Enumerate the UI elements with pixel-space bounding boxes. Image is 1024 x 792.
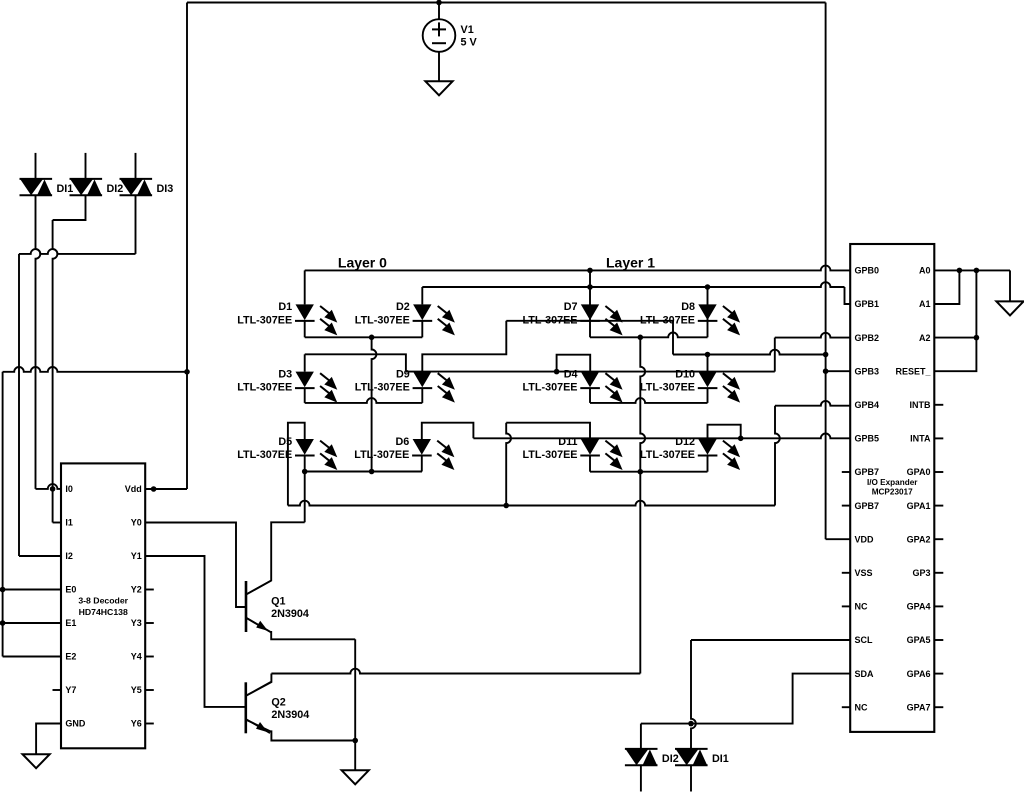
wire D12 anode bridge	[708, 425, 741, 439]
wire D3 anode stem	[304, 354, 306, 371]
wire emitters to ground	[354, 741, 356, 771]
wire D3 cathode stem	[304, 388, 306, 403]
wire Y0 to Q1 base	[145, 523, 245, 608]
wire Y1 to Q2 base	[145, 556, 245, 707]
svg-text:LTL-307EE: LTL-307EE	[355, 382, 410, 394]
junction dot +5V rail at GPB3	[823, 368, 829, 374]
svg-text:SCL: SCL	[855, 635, 874, 645]
pin stub GPA1	[934, 505, 943, 507]
wire D9 cathode stem	[421, 388, 423, 403]
svg-text:GPB4: GPB4	[855, 400, 880, 410]
wire D10 cathode stem	[707, 388, 709, 403]
svg-text:GPB5: GPB5	[855, 434, 880, 444]
LED D5 LTL-307EE	[295, 439, 337, 470]
wire row2 cathode rail L0	[305, 398, 423, 403]
svg-text:GP3: GP3	[912, 568, 930, 578]
junction dot GPB4/D11	[503, 503, 509, 509]
junction dot emitters	[352, 738, 358, 744]
svg-text:GPA0: GPA0	[907, 467, 931, 477]
svg-text:D1: D1	[278, 301, 292, 313]
svg-text:LTL-307EE: LTL-307EE	[640, 382, 695, 394]
svg-text:E1: E1	[65, 618, 76, 628]
wire +5V top rail	[187, 2, 826, 4]
svg-text:D10: D10	[675, 368, 695, 380]
svg-text:A1: A1	[919, 299, 931, 309]
LED D1 LTL-307EE	[295, 304, 337, 335]
wire I0 link	[36, 484, 62, 489]
pin stub Y3	[145, 622, 154, 624]
svg-text:D9: D9	[396, 368, 410, 380]
wire right +5V drop to MCP VDD	[825, 3, 827, 540]
wire D11 anode bridge	[506, 423, 590, 439]
wire V1 to ground	[438, 52, 440, 82]
svg-text:SDA: SDA	[855, 669, 875, 679]
wire DI3 horizontal	[19, 249, 136, 254]
svg-text:E0: E0	[65, 585, 76, 595]
wire row1 cathode rail L0	[305, 336, 423, 338]
svg-text:Y7: Y7	[65, 685, 76, 695]
pin stub GPA2	[934, 538, 943, 540]
LED D4 LTL-307EE	[580, 372, 622, 403]
wire Q2 collector	[246, 674, 271, 696]
wire D2 anode stem	[421, 287, 423, 304]
junction dot +5V rail at y354	[823, 352, 829, 358]
svg-text:MCP23017: MCP23017	[872, 488, 913, 497]
ground at A0	[996, 301, 1023, 315]
svg-text:Y4: Y4	[131, 652, 142, 662]
pin stub NC	[842, 605, 850, 607]
svg-text:I1: I1	[65, 518, 73, 528]
svg-text:A0: A0	[919, 266, 931, 276]
LED D9 LTL-307EE	[413, 372, 455, 403]
svg-text:2N3904: 2N3904	[271, 709, 309, 721]
pin stub GP3	[934, 572, 943, 574]
svg-text:GPA4: GPA4	[907, 602, 931, 612]
svg-text:E2: E2	[65, 652, 76, 662]
wire GPB2 link	[775, 333, 850, 338]
wire D1 cathode stem	[304, 321, 306, 337]
LED D10 LTL-307EE	[698, 372, 740, 403]
pin stub Y2	[145, 589, 154, 591]
svg-text:DI2: DI2	[107, 183, 124, 195]
wire antenna stub above DI1	[35, 153, 37, 179]
wire GND link	[36, 724, 61, 755]
wire GPB5 line	[473, 433, 850, 438]
svg-text:GPB1: GPB1	[855, 299, 880, 309]
I/O expander MCP23017 body	[850, 244, 934, 732]
voltage source V1 stem	[438, 3, 440, 20]
wire E0 link	[3, 589, 61, 591]
wire D5 anode bridge	[288, 423, 305, 506]
wire GPB1 jog	[845, 287, 851, 304]
svg-text:NC: NC	[855, 602, 868, 612]
junction dot D12 anode	[738, 436, 744, 442]
junction dot D8 anode	[705, 284, 711, 290]
svg-text:LTL-307EE: LTL-307EE	[237, 449, 292, 461]
pin stub INTB	[934, 404, 943, 406]
wire row3 cathode rail L1	[590, 471, 708, 473]
svg-text:INTA: INTA	[910, 434, 931, 444]
wire D10 stem	[707, 355, 709, 372]
junction dot D7 anode	[587, 268, 593, 274]
diac DI1 bottom	[675, 749, 708, 765]
svg-text:LTL-307EE: LTL-307EE	[354, 449, 409, 461]
svg-text:Y3: Y3	[131, 618, 142, 628]
3-8 decoder HD74HC138 body	[61, 463, 145, 748]
svg-text:2N3904: 2N3904	[271, 608, 309, 620]
svg-text:GPB0: GPB0	[855, 266, 880, 276]
junction dot row1 L1	[638, 335, 644, 341]
wire row3 cathode rail L0	[305, 471, 422, 473]
svg-text:LTL-307EE: LTL-307EE	[640, 449, 695, 461]
pin stub GPB7	[842, 505, 850, 507]
wire A1 link	[934, 270, 959, 304]
LED D11 LTL-307EE	[580, 439, 622, 470]
wire D1 anode stem	[304, 270, 306, 304]
svg-text:LTL-307EE: LTL-307EE	[523, 449, 578, 461]
wire SCL link	[691, 639, 850, 641]
wire D9 anode link	[422, 321, 506, 372]
svg-text:Vdd: Vdd	[125, 484, 142, 494]
junction dot row3 L1	[638, 469, 644, 475]
LED D3 LTL-307EE	[295, 372, 337, 403]
wire RESET_ link	[934, 270, 976, 371]
svg-text:LTL-307EE: LTL-307EE	[237, 314, 292, 326]
wire DI1 bottom stub	[690, 765, 692, 791]
wire Q2 emitter	[246, 720, 355, 741]
junction dot A0/A1	[957, 268, 963, 274]
wire antenna stub above DI3	[135, 153, 137, 179]
wire enable vertical	[2, 372, 4, 657]
svg-text:VDD: VDD	[855, 534, 875, 544]
wire Vdd link to rail	[673, 350, 826, 355]
junction dot D10 anode branch	[705, 352, 711, 358]
junction dot V1 at top rail	[436, 0, 442, 5]
pin stub GPA5	[934, 639, 943, 641]
svg-text:I2: I2	[65, 551, 73, 561]
svg-text:NC: NC	[855, 702, 868, 712]
wire GPB4 low line	[288, 501, 775, 506]
wire D6 anode bridge	[422, 423, 474, 439]
bridge over D4 label	[557, 355, 591, 372]
wire layer0 row2 anode rail	[305, 354, 406, 371]
wire antenna stub above DI2	[85, 153, 87, 179]
LED D6 LTL-307EE	[412, 439, 454, 470]
svg-text:DI1: DI1	[712, 753, 729, 765]
svg-text:RESET_: RESET_	[895, 366, 931, 376]
ground below Q2	[342, 770, 369, 784]
pin stub Y5	[145, 689, 154, 691]
pin stub NC	[842, 706, 850, 708]
svg-text:V1: V1	[461, 24, 474, 36]
svg-text:LTL-307EE: LTL-307EE	[237, 382, 292, 394]
wire Q1 emitter	[247, 618, 356, 639]
wire I1 link	[53, 522, 61, 524]
junction dot I0/DI2 crossing	[50, 486, 56, 492]
wire Vdd link	[145, 488, 187, 490]
wire A2 link	[934, 337, 976, 339]
wire DI1 cathode down to I0	[36, 195, 41, 489]
junction dot Vdd	[151, 486, 157, 492]
svg-text:VSS: VSS	[855, 568, 873, 578]
svg-text:3-8 Decoder: 3-8 Decoder	[78, 596, 128, 606]
wire row1 cathode rail L1	[590, 333, 708, 338]
diac DI2	[70, 179, 103, 195]
wire GPB4 riser	[775, 406, 780, 506]
svg-text:I0: I0	[65, 484, 73, 494]
svg-text:D4: D4	[564, 368, 578, 380]
wire E1 link	[3, 622, 61, 624]
wire I2 link	[19, 555, 61, 557]
svg-text:D3: D3	[278, 368, 292, 380]
svg-text:DI1: DI1	[57, 183, 74, 195]
wire D11 cathode stem	[589, 456, 591, 472]
pin stub GPB7	[842, 471, 850, 473]
diac DI3	[120, 179, 153, 195]
wire D5 cathode stem	[304, 456, 306, 472]
junction dot D4 branch	[554, 369, 560, 375]
svg-text:Y5: Y5	[131, 685, 142, 695]
wire enable branch from +5V	[3, 367, 187, 372]
pin stub Y7	[53, 689, 62, 691]
wire D6 cathode stem	[421, 456, 423, 472]
wire Q2 collector to layer1 cathodes	[271, 669, 640, 674]
ground below V1	[425, 81, 452, 95]
pin stub Y4	[145, 656, 154, 658]
wire D5 column down	[304, 472, 306, 523]
wire Q1 emitter drop	[354, 639, 356, 740]
svg-text:D5: D5	[278, 436, 292, 448]
wire Q1 collector	[247, 522, 305, 594]
wire row1b rail GPB1	[422, 282, 844, 287]
svg-text:Q2: Q2	[271, 697, 285, 709]
pin stub Y6	[145, 723, 154, 725]
wire left +5V drop to decoder Vdd	[186, 3, 188, 490]
junction dot SCL/SDA crossing	[688, 721, 694, 727]
wire cathode chain L0	[372, 337, 377, 471]
pin stub GPA6	[934, 673, 943, 675]
svg-text:GPA1: GPA1	[907, 501, 931, 511]
svg-text:Layer 1: Layer 1	[606, 254, 655, 270]
junction dot D5 cathode	[302, 469, 308, 475]
wire E2 link	[3, 656, 61, 658]
wire D11 bridge drop	[506, 423, 511, 506]
svg-text:Y2: Y2	[131, 585, 142, 595]
wire Vdd link through labels	[506, 320, 673, 322]
wire SCL drop to DI1	[691, 640, 696, 749]
svg-text:GPB7: GPB7	[855, 501, 880, 511]
diac DI1	[20, 179, 53, 195]
svg-text:I/O Expander: I/O Expander	[867, 478, 918, 487]
wire SDA link	[641, 674, 850, 724]
wire DI2 bottom stub	[640, 765, 642, 791]
junction dot row1 L0	[369, 335, 375, 341]
wire VDD link	[826, 538, 851, 540]
svg-text:Y1: Y1	[131, 551, 142, 561]
wire D2 cathode stem	[421, 321, 423, 337]
wire D7 stem	[589, 270, 591, 337]
wire D8 stem	[707, 287, 709, 337]
wire row2 cathode rail L1	[590, 398, 708, 403]
transistor Q2 2N3904	[245, 682, 248, 733]
svg-text:5 V: 5 V	[461, 37, 478, 49]
svg-text:GPB7: GPB7	[855, 467, 880, 477]
LED D8 LTL-307EE	[698, 304, 740, 335]
wire Vdd link drop	[672, 321, 674, 355]
junction dot A0/A2	[974, 268, 980, 274]
wire layer0 anode rail GPB0	[305, 266, 851, 271]
junction dot +5V / enable branch	[184, 369, 190, 375]
svg-text:Y0: Y0	[131, 518, 142, 528]
svg-text:GND: GND	[65, 719, 86, 729]
svg-text:Y6: Y6	[131, 719, 142, 729]
LED D2 LTL-307EE	[413, 304, 455, 335]
ground below decoder	[22, 754, 49, 768]
svg-text:DI3: DI3	[157, 183, 174, 195]
wire GPB4 link	[775, 401, 850, 406]
wire D4 cathode stem	[589, 388, 591, 403]
svg-text:DI2: DI2	[662, 753, 679, 765]
wire A0 to ground	[1009, 270, 1011, 301]
wire DI2 jog	[53, 195, 86, 220]
pin stub GPA4	[934, 605, 943, 607]
wire GPB2 riser	[774, 338, 776, 372]
junction dot D7 at row1b	[587, 284, 593, 290]
svg-text:GPA6: GPA6	[907, 669, 931, 679]
svg-text:GPA2: GPA2	[907, 534, 931, 544]
pin stub GPA0	[934, 471, 943, 473]
transistor Q1 2N3904	[245, 581, 248, 632]
svg-text:A2: A2	[919, 333, 931, 343]
svg-text:GPA7: GPA7	[907, 702, 931, 712]
svg-text:GPB3: GPB3	[855, 366, 880, 376]
wire cathode chain L1	[640, 337, 645, 673]
pin stub INTA	[934, 437, 943, 439]
svg-text:Layer 0: Layer 0	[338, 254, 387, 270]
svg-text:D2: D2	[396, 301, 410, 313]
svg-text:GPA5: GPA5	[907, 635, 931, 645]
junction dot E0	[0, 587, 5, 593]
wire DI3 down to I2	[18, 254, 20, 556]
junction dot row3 L0	[369, 469, 375, 475]
LED D12 LTL-307EE	[698, 439, 740, 470]
pin stub GPA7	[934, 706, 943, 708]
svg-text:D7: D7	[564, 301, 578, 313]
svg-text:INTB: INTB	[910, 400, 931, 410]
wire GPB3 link	[826, 370, 851, 372]
junction dot A2	[974, 335, 980, 341]
wire A0 net	[934, 269, 1010, 271]
wire DI3 jog down	[135, 195, 137, 254]
pin stub VSS	[842, 572, 850, 574]
svg-text:HD74HC138: HD74HC138	[79, 607, 128, 617]
svg-text:D8: D8	[681, 301, 695, 313]
wire GPB2 long line	[406, 371, 775, 373]
junction dot E1	[0, 620, 5, 626]
voltage source V1 body	[423, 19, 456, 52]
diac DI2 bottom	[625, 749, 658, 765]
wire SDA drop to DI2	[640, 724, 642, 749]
wire DI2 down to I1	[53, 220, 58, 523]
svg-text:Q1: Q1	[271, 596, 285, 608]
wire D12 cathode stem	[707, 456, 709, 472]
svg-text:LTL-307EE: LTL-307EE	[355, 314, 410, 326]
svg-text:D6: D6	[395, 436, 409, 448]
LED D7 LTL-307EE	[580, 304, 622, 335]
svg-text:LTL-307EE: LTL-307EE	[523, 382, 578, 394]
svg-text:GPB2: GPB2	[855, 333, 880, 343]
